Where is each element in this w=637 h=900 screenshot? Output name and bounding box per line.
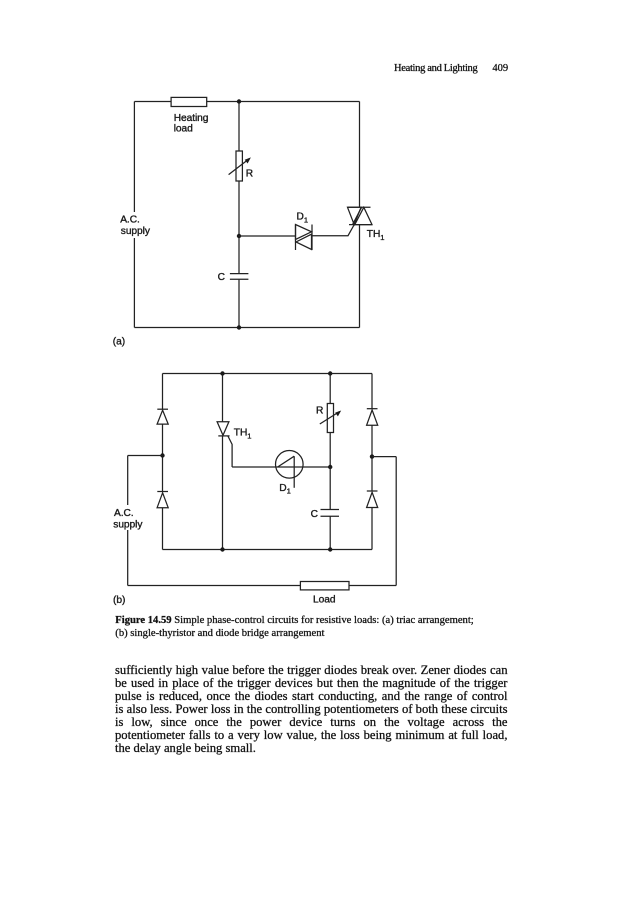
diode D1 (circled)	[276, 451, 304, 488]
figure caption	[115, 614, 508, 640]
wire: TH1 branch lower	[222, 436, 224, 550]
wire: outer right vertical	[395, 457, 397, 586]
diode lower-right	[367, 491, 378, 508]
diac D1	[296, 225, 313, 251]
wire: (b) bridge bottom horizontal	[163, 549, 373, 551]
wire: C to bridge bottom	[329, 516, 331, 549]
wire: left branch node to outer left	[128, 455, 163, 457]
node: TH1 branch bottom junction	[220, 547, 224, 551]
svg-text:TH1: TH1	[367, 229, 385, 242]
arrow of variable resistor R	[229, 159, 250, 175]
svg-text:supply: supply	[121, 226, 151, 237]
diode lower-left	[157, 492, 168, 508]
diode upper-right	[367, 409, 378, 426]
resistor: Load rectangle	[300, 582, 349, 590]
wire: right branch node to outer right	[372, 456, 396, 458]
svg-text:C: C	[218, 272, 225, 283]
svg-text:D1: D1	[297, 212, 308, 225]
wire: (a) top horizontal	[134, 101, 359, 103]
svg-text:Load: Load	[313, 595, 336, 606]
wire: gate horizontal to node below R	[232, 466, 330, 468]
svg-text:(b): (b)	[113, 595, 125, 606]
svg-text:A.C.: A.C.	[114, 508, 134, 519]
wire: (b) left branch vertical	[162, 374, 164, 410]
wire: diac D1 to triac gate	[312, 225, 354, 236]
node: R/C junction with gate wire	[328, 465, 332, 469]
arrow of variable resistor R	[320, 412, 340, 425]
wire: (a) right vertical lower	[359, 225, 361, 328]
resistor R (variable) rectangle	[327, 404, 333, 433]
node: R branch top junction	[328, 371, 332, 375]
resistor R (variable) rectangle	[236, 151, 242, 181]
triac TH1	[348, 207, 373, 224]
wire: (a) left vertical (A.C. supply side, broken for label)	[133, 102, 135, 213]
body paragraph	[115, 664, 508, 755]
node: TH1 branch top junction	[220, 371, 224, 375]
wire: TH1 gate bend	[228, 436, 232, 467]
wire: (a) middle vertical top segment	[238, 102, 240, 152]
node: top junction of middle branch	[237, 99, 241, 103]
svg-text:C: C	[311, 509, 318, 520]
resistor: heating load rectangle	[171, 97, 207, 106]
node: bottom junction of middle branch	[237, 325, 241, 329]
svg-text:D1: D1	[279, 483, 290, 496]
node: A.C. tap on left branch	[160, 453, 164, 457]
node: gate junction on middle branch	[237, 234, 241, 238]
node: C branch bottom junction	[328, 547, 332, 551]
circuit (a)	[134, 97, 372, 329]
svg-text:Heating: Heating	[174, 113, 209, 124]
circuit (b)	[128, 371, 397, 590]
wire: R to node	[329, 433, 331, 468]
wire: (b) R branch top	[329, 374, 331, 404]
svg-text:(a): (a)	[113, 337, 125, 348]
thyristor TH1	[217, 422, 230, 436]
wire: node to diac D1	[239, 235, 296, 237]
svg-text:R: R	[246, 169, 253, 180]
wire: (a) right vertical upper	[359, 102, 361, 208]
wire: bottom outer right of Load	[349, 585, 396, 587]
svg-text:supply: supply	[113, 520, 143, 531]
wire: (a) middle vertical below C	[238, 280, 240, 328]
wire: outer left vertical (broken for A.C. supply label)	[127, 456, 129, 506]
wire: (a) bottom horizontal	[134, 327, 359, 329]
svg-text:A.C.: A.C.	[120, 215, 140, 226]
capacitor C plates	[230, 273, 249, 275]
wire: (b) right branch vertical	[371, 374, 373, 409]
wire: node to capacitor C	[329, 467, 331, 509]
svg-text:load: load	[174, 124, 193, 135]
capacitor C plates	[321, 509, 340, 511]
node: right branch tap	[370, 454, 374, 458]
wire: (a) middle vertical between R and node	[238, 181, 240, 273]
svg-text:R: R	[316, 405, 323, 416]
svg-text:TH1: TH1	[234, 428, 252, 441]
page header	[394, 63, 508, 74]
wire: (b) TH1 branch top	[222, 374, 224, 422]
wire: (b) bridge top horizontal	[163, 373, 373, 375]
wire: bottom outer left of Load	[128, 585, 301, 587]
diode upper-left	[157, 409, 168, 424]
